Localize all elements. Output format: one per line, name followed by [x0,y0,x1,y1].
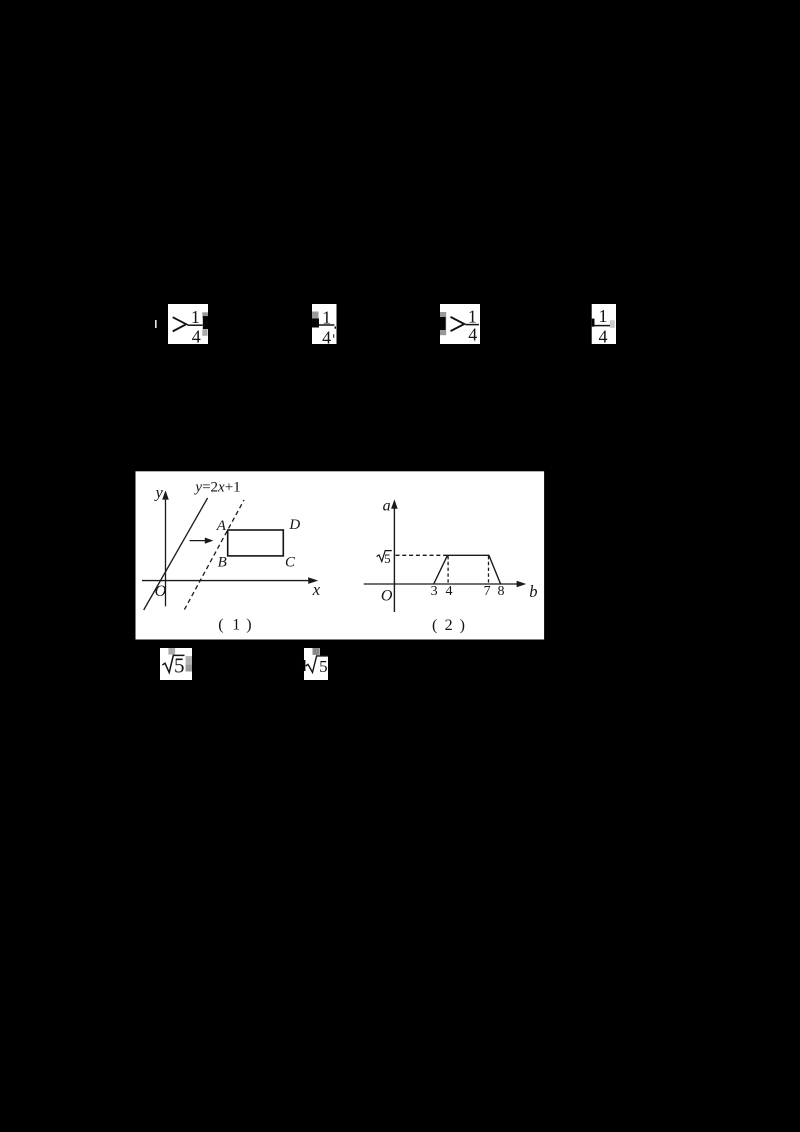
svg-text:y=2x+1: y=2x+1 [193,480,240,496]
svg-text:3: 3 [431,584,438,599]
svg-text:a: a [383,497,391,514]
svg-text:5: 5 [384,551,391,566]
svg-text:y: y [154,485,164,502]
svg-text:2: 2 [445,617,453,634]
svg-text:4: 4 [599,326,608,346]
svg-text:(: ( [432,617,437,634]
svg-text:4: 4 [192,326,201,346]
svg-text:8: 8 [498,584,505,599]
svg-text:(: ( [218,617,223,634]
svg-text:1: 1 [232,617,240,634]
svg-text:D: D [288,517,300,533]
svg-text:O: O [381,587,393,604]
svg-text:): ) [460,617,465,634]
svg-text:4: 4 [322,328,331,348]
svg-text:C: C [285,555,296,571]
svg-text:5: 5 [319,657,328,676]
svg-text:1: 1 [191,307,200,327]
svg-text:O: O [155,583,167,600]
svg-text:4: 4 [446,584,453,599]
svg-text:1: 1 [322,308,331,328]
svg-text:1: 1 [468,306,477,326]
svg-text:b: b [529,582,537,601]
svg-text:4: 4 [468,325,477,345]
svg-text:): ) [246,617,251,634]
svg-text:A: A [216,518,227,534]
svg-text:7: 7 [484,584,491,599]
svg-text:B: B [218,555,227,571]
svg-text:1: 1 [599,306,608,326]
svg-text:5: 5 [174,653,185,677]
svg-text:x: x [312,580,321,599]
